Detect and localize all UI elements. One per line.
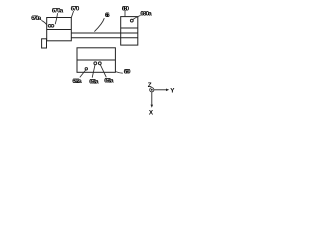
svg-text:X: X: [149, 109, 154, 116]
svg-text:670a: 670a: [52, 7, 64, 14]
hole 670a left: [48, 24, 51, 27]
leader 670: [71, 11, 73, 17]
svg-text:66: 66: [105, 12, 110, 19]
leader 670a top: [55, 13, 57, 24]
leader 692a: [80, 70, 86, 77]
svg-text:691a: 691a: [89, 79, 99, 86]
svg-text:670a: 670a: [31, 15, 42, 22]
svg-text:680: 680: [122, 5, 130, 12]
hole 670a right: [51, 24, 54, 27]
axis origin dot: [151, 89, 153, 91]
divider in box 690: [77, 59, 115, 61]
svg-text:690: 690: [124, 69, 131, 76]
hole 680a: [130, 19, 133, 22]
axis X arrowhead: [151, 105, 154, 108]
leader 670a left: [41, 20, 46, 24]
box 680: [121, 17, 138, 45]
hole 692a: [85, 68, 87, 70]
rail 66 bottom edge: [71, 37, 120, 39]
leader 66: [94, 18, 104, 31]
svg-text:670: 670: [71, 6, 80, 13]
hole 691a left: [94, 62, 97, 65]
leader 691a right: [100, 65, 106, 78]
axis Y line: [154, 89, 166, 91]
axis X line: [151, 92, 153, 105]
rail 66 top edge: [71, 32, 120, 34]
axis Y arrowhead: [166, 89, 169, 92]
box 670: [47, 18, 72, 41]
hole 691a right: [98, 62, 101, 65]
svg-text:Z: Z: [148, 82, 152, 89]
leader 691a mid: [92, 65, 95, 78]
rail line through box 680 lower: [121, 37, 138, 39]
divider in box 680: [121, 27, 138, 29]
leader 690: [116, 72, 123, 74]
svg-text:691a: 691a: [104, 78, 114, 85]
box 690: [77, 48, 115, 73]
axis origin ring Z: [150, 88, 154, 92]
divider in box 670: [47, 29, 72, 31]
rail line through box 680 upper: [121, 32, 138, 34]
leader 680a: [133, 15, 141, 19]
svg-text:692a: 692a: [72, 78, 82, 85]
svg-text:Y: Y: [170, 88, 175, 95]
tab on box 670: [42, 39, 47, 48]
leader 680: [124, 11, 126, 17]
svg-text:680a: 680a: [140, 10, 152, 17]
